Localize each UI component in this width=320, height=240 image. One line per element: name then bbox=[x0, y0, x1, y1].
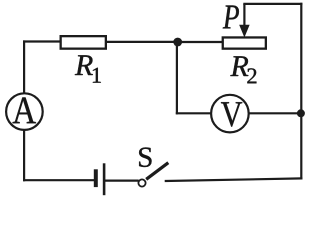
wire top right to slider bbox=[244, 3, 301, 5]
rheostat R2 bbox=[223, 37, 266, 48]
wire battery to switch bbox=[105, 180, 138, 182]
voltmeter V bbox=[211, 95, 249, 133]
wire R1 to junction bbox=[107, 41, 177, 43]
label R1 bbox=[75, 55, 93, 75]
wire bottom left bbox=[24, 179, 94, 181]
wire top-left horizontal bbox=[24, 40, 60, 42]
wire bottom right bbox=[166, 178, 301, 181]
wire voltmeter right to node bbox=[249, 112, 302, 114]
battery cell bbox=[96, 163, 104, 195]
wire junction to R2 bbox=[178, 41, 222, 43]
slider arrow P bbox=[240, 4, 249, 36]
wire to voltmeter left bbox=[177, 112, 211, 114]
wire left vertical lower bbox=[23, 130, 25, 180]
resistor R1 bbox=[61, 36, 106, 49]
switch S bbox=[138, 163, 168, 187]
ammeter A bbox=[6, 93, 43, 130]
node junction right bbox=[297, 109, 305, 117]
wire left vertical upper bbox=[23, 42, 25, 94]
label R2 bbox=[230, 56, 248, 76]
wire right vertical bbox=[300, 4, 302, 179]
node junction left bbox=[173, 38, 182, 47]
wire junction down to voltmeter branch bbox=[176, 42, 178, 113]
label P bbox=[223, 5, 239, 28]
label S bbox=[139, 147, 151, 166]
